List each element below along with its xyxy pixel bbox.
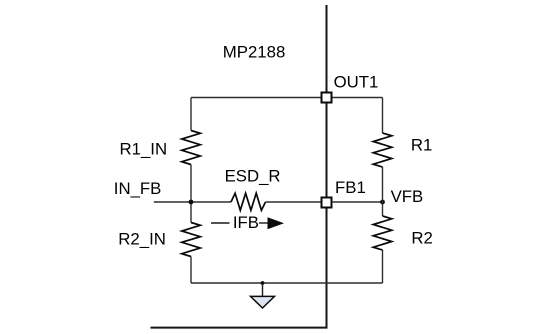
current label IFB trailing line — [259, 222, 269, 224]
wire: top horizontal left (net to OUT1 pin) — [191, 97, 321, 99]
pin OUT1 (square terminal) — [322, 93, 332, 103]
ground symbol triangle — [251, 296, 275, 308]
svg-text:R1: R1 — [411, 135, 432, 154]
wire: right branch middle vertical — [382, 167, 384, 216]
svg-text:IN_FB: IN_FB — [114, 179, 162, 198]
wire: right branch upper vertical — [382, 98, 384, 134]
wire: main OUT rail vertical — [326, 5, 328, 328]
resistor R1_IN — [182, 131, 201, 165]
resistor ESD_R — [231, 193, 266, 210]
wire: left branch lower vertical — [190, 257, 192, 284]
pin FB1 (square terminal) — [322, 198, 332, 208]
wire: left branch upper vertical — [190, 98, 192, 131]
svg-text:R1_IN: R1_IN — [120, 140, 168, 159]
wire: IN_FB horizontal stub — [154, 201, 231, 203]
current label IFB lead line — [211, 222, 230, 224]
wire: left branch middle vertical — [190, 165, 192, 223]
wire: bottom horizontal rail — [151, 327, 328, 329]
wire: ground horizontal net — [191, 282, 383, 284]
current arrow IFB (filled arrowhead) — [268, 217, 285, 229]
wire: ESD_R to FB1 pin — [266, 201, 322, 203]
svg-text:VFB: VFB — [391, 187, 424, 206]
svg-text:R2: R2 — [411, 228, 432, 247]
svg-text:ESD_R: ESD_R — [225, 167, 281, 186]
svg-text:R2_IN: R2_IN — [118, 229, 166, 248]
node junction dot at ground stem — [261, 281, 265, 285]
wire: FB1 pin to VFB node — [332, 201, 383, 203]
wire: top horizontal right (OUT1 pin to R1 branch) — [332, 97, 383, 99]
resistor R2_IN — [182, 223, 201, 257]
svg-text:IFB: IFB — [233, 213, 259, 232]
node junction dot IN_FB / left branch — [189, 200, 194, 205]
ground symbol stem — [262, 283, 264, 296]
svg-text:FB1: FB1 — [335, 178, 366, 197]
svg-text:MP2188: MP2188 — [223, 42, 286, 61]
node VFB junction dot — [380, 200, 385, 205]
resistor R2 — [373, 216, 392, 250]
wire: right branch lower vertical — [382, 250, 384, 283]
resistor R1 — [373, 133, 392, 167]
svg-text:OUT1: OUT1 — [334, 72, 379, 91]
